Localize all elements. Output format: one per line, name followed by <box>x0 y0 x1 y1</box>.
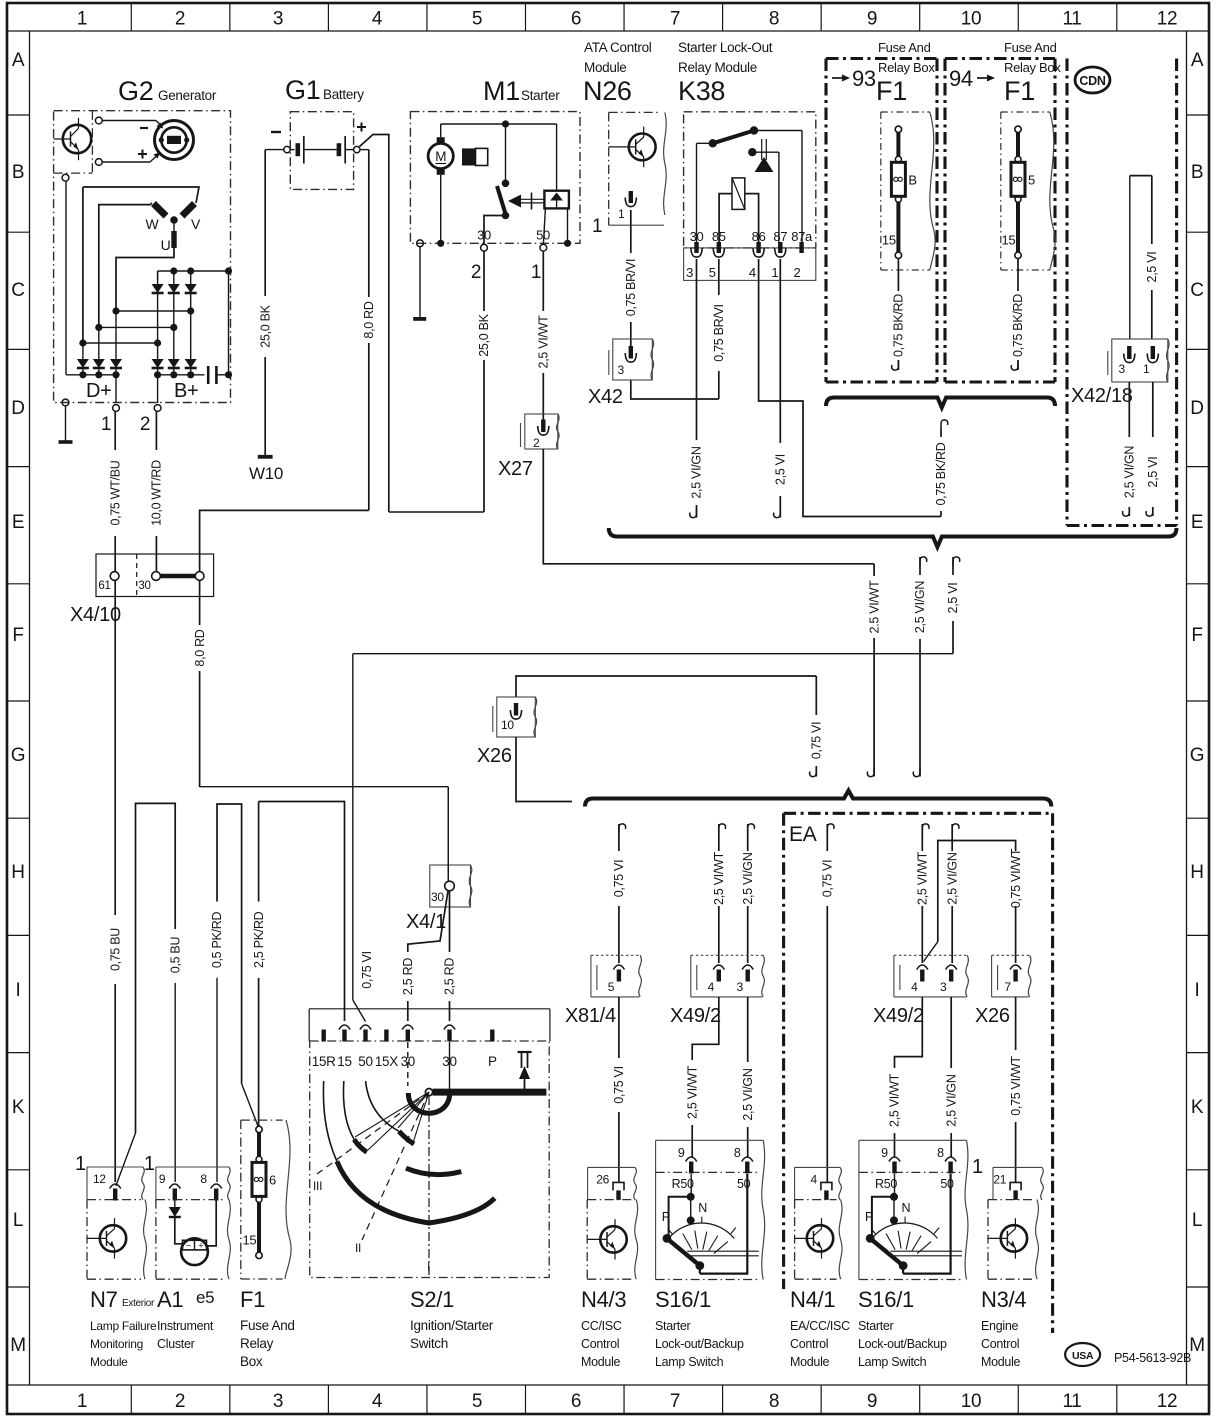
svg-text:A1: A1 <box>157 1287 183 1312</box>
svg-text:9: 9 <box>678 1146 685 1160</box>
svg-text:N: N <box>698 1201 707 1215</box>
svg-text:Ignition/Starter: Ignition/Starter <box>410 1318 494 1333</box>
svg-text:2,5 VI/WT: 2,5 VI/WT <box>888 1073 902 1127</box>
svg-text:30: 30 <box>690 229 704 244</box>
svg-text:Switch: Switch <box>410 1336 448 1351</box>
svg-text:G1: G1 <box>285 75 320 105</box>
svg-text:C: C <box>11 280 24 301</box>
svg-text:CC/ISC: CC/ISC <box>581 1319 622 1333</box>
svg-text:8: 8 <box>734 1146 741 1160</box>
svg-text:K38: K38 <box>678 76 725 106</box>
svg-text:−: − <box>186 1240 191 1250</box>
svg-text:2: 2 <box>175 1391 185 1412</box>
svg-text:Monitoring: Monitoring <box>90 1337 143 1351</box>
svg-text:0,75 BR/VI: 0,75 BR/VI <box>624 259 638 316</box>
svg-text:26: 26 <box>596 1172 609 1186</box>
svg-text:5: 5 <box>608 980 615 994</box>
svg-text:M1: M1 <box>483 76 520 106</box>
svg-text:K: K <box>12 1097 25 1118</box>
svg-text:E: E <box>1191 512 1203 533</box>
svg-text:P: P <box>865 1210 873 1224</box>
svg-text:15X: 15X <box>375 1054 398 1069</box>
svg-text:3: 3 <box>1119 362 1126 376</box>
svg-text:F: F <box>1191 625 1202 646</box>
svg-text:Exterior: Exterior <box>122 1298 155 1309</box>
svg-text:+: + <box>198 1240 203 1250</box>
svg-text:1: 1 <box>101 414 111 435</box>
svg-text:15: 15 <box>882 232 896 247</box>
svg-text:N26: N26 <box>583 76 632 106</box>
svg-text:1: 1 <box>144 1153 155 1175</box>
svg-text:10: 10 <box>501 718 514 732</box>
svg-text:A: A <box>1191 50 1204 71</box>
svg-text:0,75 BU: 0,75 BU <box>108 928 122 971</box>
svg-text:3: 3 <box>737 980 744 994</box>
svg-text:61: 61 <box>98 580 110 592</box>
svg-text:e5: e5 <box>196 1288 214 1307</box>
svg-text:F1: F1 <box>876 76 907 106</box>
svg-text:2,5 VI/GN: 2,5 VI/GN <box>741 1068 755 1120</box>
svg-text:1: 1 <box>972 1156 983 1178</box>
svg-text:Control: Control <box>790 1337 828 1351</box>
svg-text:A: A <box>12 50 25 71</box>
svg-text:W: W <box>146 216 160 232</box>
svg-text:N3/4: N3/4 <box>981 1287 1026 1312</box>
svg-text:2,5 VI/WT: 2,5 VI/WT <box>712 851 726 905</box>
svg-text:10: 10 <box>961 1391 982 1412</box>
svg-text:0,75 VI: 0,75 VI <box>810 722 824 760</box>
svg-text:Fuse And: Fuse And <box>240 1318 295 1333</box>
svg-text:5: 5 <box>472 1391 482 1412</box>
svg-text:6: 6 <box>571 9 581 30</box>
svg-text:0,5 PK/RD: 0,5 PK/RD <box>210 912 224 969</box>
svg-text:3: 3 <box>618 363 625 377</box>
svg-text:2,5 VI/GN: 2,5 VI/GN <box>913 581 927 633</box>
svg-text:I: I <box>16 980 21 1001</box>
svg-text:2.5 VI/WT: 2.5 VI/WT <box>867 580 881 634</box>
svg-text:Relay Box: Relay Box <box>878 60 935 75</box>
svg-text:0,75 VI: 0,75 VI <box>612 860 626 898</box>
svg-text:50: 50 <box>940 1177 954 1191</box>
svg-text:Generator: Generator <box>158 88 217 103</box>
svg-text:Module: Module <box>981 1355 1021 1369</box>
svg-text:Control: Control <box>981 1337 1019 1351</box>
svg-text:7: 7 <box>670 1391 680 1412</box>
svg-text:1: 1 <box>618 207 625 221</box>
svg-text:S16/1: S16/1 <box>858 1287 914 1312</box>
svg-text:S16/1: S16/1 <box>655 1287 711 1312</box>
svg-text:4: 4 <box>372 9 383 30</box>
svg-text:12: 12 <box>93 1172 106 1186</box>
svg-text:F1: F1 <box>240 1287 265 1312</box>
svg-text:Relay Box: Relay Box <box>1004 60 1061 75</box>
svg-text:4: 4 <box>749 265 756 280</box>
svg-text:2,5 VI/GN: 2,5 VI/GN <box>945 852 959 904</box>
svg-text:X42/18: X42/18 <box>1071 385 1133 407</box>
svg-text:4: 4 <box>708 980 715 994</box>
svg-text:25,0 BK: 25,0 BK <box>477 313 491 356</box>
svg-text:7: 7 <box>670 9 680 30</box>
svg-text:M: M <box>1189 1335 1205 1356</box>
svg-text:EA/CC/ISC: EA/CC/ISC <box>790 1319 850 1333</box>
svg-text:5: 5 <box>709 265 716 280</box>
svg-text:5: 5 <box>472 9 482 30</box>
svg-text:2: 2 <box>533 436 540 450</box>
svg-text:0,75 VI: 0,75 VI <box>821 860 835 898</box>
svg-text:9: 9 <box>867 9 877 30</box>
svg-text:8: 8 <box>937 1146 944 1160</box>
svg-text:0,75 BK/RD: 0,75 BK/RD <box>892 294 906 357</box>
svg-text:8,0 RD: 8,0 RD <box>193 629 207 666</box>
svg-text:3: 3 <box>686 265 693 280</box>
svg-text:EA: EA <box>789 823 817 846</box>
svg-text:H: H <box>1190 862 1203 883</box>
svg-text:12: 12 <box>1157 9 1178 30</box>
svg-text:2,5 VI: 2,5 VI <box>1146 457 1160 488</box>
svg-text:Module: Module <box>581 1355 621 1369</box>
svg-text:8: 8 <box>769 1391 779 1412</box>
svg-text:H: H <box>11 862 24 883</box>
svg-text:Starter: Starter <box>521 88 560 103</box>
svg-text:3: 3 <box>273 9 283 30</box>
svg-text:Fuse And: Fuse And <box>1004 40 1057 55</box>
svg-text:30: 30 <box>477 228 491 243</box>
svg-text:0,75 VI: 0,75 VI <box>360 951 374 989</box>
svg-text:Starter: Starter <box>858 1319 894 1333</box>
svg-text:6: 6 <box>269 1172 276 1187</box>
svg-text:8: 8 <box>769 9 779 30</box>
svg-text:D+: D+ <box>86 380 112 402</box>
svg-text:5: 5 <box>1028 172 1035 187</box>
svg-text:III: III <box>313 1179 322 1193</box>
svg-text:D: D <box>1190 398 1203 419</box>
svg-text:Relay: Relay <box>240 1336 274 1351</box>
svg-text:G2: G2 <box>118 76 153 106</box>
svg-text:N: N <box>902 1201 911 1215</box>
svg-text:X26: X26 <box>975 1005 1010 1027</box>
svg-text:E: E <box>12 512 24 533</box>
svg-text:1: 1 <box>77 1391 87 1412</box>
svg-text:94: 94 <box>949 66 973 91</box>
svg-text:CDN: CDN <box>1079 74 1105 88</box>
svg-text:Lamp Switch: Lamp Switch <box>858 1355 927 1369</box>
svg-text:2,5 VI/GN: 2,5 VI/GN <box>690 446 704 498</box>
svg-text:M: M <box>10 1335 26 1356</box>
svg-text:2: 2 <box>175 9 185 30</box>
svg-text:X4/1: X4/1 <box>406 911 446 933</box>
svg-text:Lock-out/Backup: Lock-out/Backup <box>858 1337 947 1351</box>
svg-text:G: G <box>11 745 25 766</box>
svg-text:I: I <box>427 1260 430 1274</box>
svg-text:15: 15 <box>243 1232 257 1247</box>
svg-text:1: 1 <box>771 265 778 280</box>
svg-text:2,5 VI/GN: 2,5 VI/GN <box>741 852 755 904</box>
svg-text:F1: F1 <box>1004 76 1035 106</box>
svg-text:K: K <box>1191 1097 1204 1118</box>
svg-text:Cluster: Cluster <box>157 1337 195 1351</box>
svg-text:F: F <box>12 625 23 646</box>
svg-text:B: B <box>12 162 24 183</box>
svg-text:Battery: Battery <box>323 87 364 102</box>
svg-text:4: 4 <box>811 1172 818 1186</box>
svg-text:Starter: Starter <box>655 1319 691 1333</box>
svg-text:4: 4 <box>911 980 918 994</box>
svg-text:86: 86 <box>752 229 766 244</box>
svg-text:2,5 VI: 2,5 VI <box>774 454 788 485</box>
svg-text:Starter Lock-Out: Starter Lock-Out <box>678 40 773 55</box>
svg-text:M: M <box>435 149 446 164</box>
svg-text:L: L <box>1192 1210 1202 1231</box>
svg-text:2,5 RD: 2,5 RD <box>401 958 415 995</box>
svg-text:8,0 RD: 8,0 RD <box>362 301 376 338</box>
svg-text:ATA Control: ATA Control <box>584 40 652 55</box>
svg-text:USA: USA <box>1072 1350 1094 1362</box>
svg-text:0,75 BK/RD: 0,75 BK/RD <box>934 442 948 505</box>
svg-text:Lamp Failure: Lamp Failure <box>90 1319 157 1333</box>
svg-text:X49/2: X49/2 <box>873 1005 924 1027</box>
svg-text:Relay Module: Relay Module <box>678 60 757 75</box>
svg-text:1: 1 <box>77 9 87 30</box>
svg-text:B: B <box>1191 162 1203 183</box>
svg-text:0,75 VI/WT: 0,75 VI/WT <box>1009 848 1023 908</box>
svg-text:Engine: Engine <box>981 1319 1018 1333</box>
svg-text:2,5 RD: 2,5 RD <box>443 958 457 995</box>
svg-text:50: 50 <box>737 1177 751 1191</box>
svg-text:D: D <box>11 398 24 419</box>
svg-text:9: 9 <box>867 1391 877 1412</box>
svg-text:Module: Module <box>90 1355 128 1369</box>
svg-text:50: 50 <box>358 1054 372 1069</box>
svg-text:30: 30 <box>138 580 150 592</box>
svg-text:3: 3 <box>940 980 947 994</box>
svg-text:W10: W10 <box>249 464 283 483</box>
svg-text:Fuse And: Fuse And <box>878 40 931 55</box>
svg-text:2: 2 <box>140 414 150 435</box>
svg-text:9: 9 <box>159 1172 166 1186</box>
svg-text:85: 85 <box>712 229 726 244</box>
svg-text:87a: 87a <box>791 229 813 244</box>
svg-text:Lock-out/Backup: Lock-out/Backup <box>655 1337 744 1351</box>
svg-text:Instrument: Instrument <box>157 1319 214 1333</box>
svg-text:Module: Module <box>790 1355 830 1369</box>
svg-text:2: 2 <box>471 262 481 283</box>
svg-text:X26: X26 <box>477 745 512 767</box>
svg-text:I: I <box>1195 980 1200 1001</box>
svg-text:30: 30 <box>431 890 444 904</box>
svg-text:Lamp Switch: Lamp Switch <box>655 1355 724 1369</box>
svg-text:2,5 VI/GN: 2,5 VI/GN <box>944 1074 958 1126</box>
svg-text:2,5 VI: 2,5 VI <box>1145 252 1159 283</box>
svg-text:X4/10: X4/10 <box>70 604 121 626</box>
svg-text:L: L <box>13 1210 23 1231</box>
svg-text:93: 93 <box>852 66 876 91</box>
svg-text:6: 6 <box>571 1391 581 1412</box>
svg-text:N7: N7 <box>90 1287 118 1312</box>
svg-text:7: 7 <box>1004 980 1011 994</box>
svg-text:10,0 WT/RD: 10,0 WT/RD <box>150 460 164 526</box>
svg-text:10: 10 <box>961 9 982 30</box>
svg-text:2,5 VI/WT: 2,5 VI/WT <box>685 1065 699 1119</box>
svg-text:X27: X27 <box>498 458 533 480</box>
svg-text:2,5 VI/GN: 2,5 VI/GN <box>1123 446 1137 498</box>
svg-text:P: P <box>662 1210 670 1224</box>
svg-text:25,0 BK: 25,0 BK <box>258 304 272 347</box>
svg-text:P54-5613-92B: P54-5613-92B <box>1114 1351 1191 1365</box>
svg-text:C: C <box>1190 280 1203 301</box>
svg-text:4: 4 <box>372 1391 383 1412</box>
svg-text:0,75 VI/WT: 0,75 VI/WT <box>1009 1056 1023 1116</box>
svg-text:N4/1: N4/1 <box>790 1287 835 1312</box>
svg-text:X42: X42 <box>588 386 623 408</box>
svg-text:12: 12 <box>1157 1391 1178 1412</box>
svg-text:S2/1: S2/1 <box>410 1287 454 1312</box>
svg-text:2: 2 <box>794 265 801 280</box>
svg-text:2,5 VI/WT: 2,5 VI/WT <box>916 851 930 905</box>
svg-text:B+: B+ <box>174 380 198 402</box>
svg-text:1: 1 <box>1143 362 1150 376</box>
svg-text:G: G <box>1190 745 1204 766</box>
svg-text:1: 1 <box>531 262 541 283</box>
svg-text:11: 11 <box>1062 1391 1081 1412</box>
svg-text:Module: Module <box>584 60 626 75</box>
svg-text:P: P <box>488 1054 497 1069</box>
svg-text:11: 11 <box>1062 9 1081 30</box>
svg-text:N4/3: N4/3 <box>581 1287 626 1312</box>
svg-text:Control: Control <box>581 1337 619 1351</box>
svg-text:0,75 BR/VI: 0,75 BR/VI <box>712 304 726 361</box>
svg-text:9: 9 <box>881 1146 888 1160</box>
svg-text:U: U <box>161 237 171 253</box>
svg-text:X81/4: X81/4 <box>565 1005 616 1027</box>
svg-text:2,5 VI/WT: 2,5 VI/WT <box>537 315 551 369</box>
svg-text:II: II <box>355 1241 361 1255</box>
svg-text:B: B <box>908 172 916 187</box>
svg-text:V: V <box>191 216 201 232</box>
svg-text:Box: Box <box>240 1354 263 1369</box>
svg-text:0,5 BU: 0,5 BU <box>168 937 182 974</box>
svg-text:1: 1 <box>75 1153 86 1175</box>
svg-text:15: 15 <box>1002 232 1016 247</box>
svg-text:1: 1 <box>592 216 602 237</box>
svg-text:15: 15 <box>337 1054 351 1069</box>
svg-text:0,75 BK/RD: 0,75 BK/RD <box>1011 294 1025 357</box>
svg-text:0,75 VI: 0,75 VI <box>612 1066 626 1104</box>
svg-text:0,75 WT/BU: 0,75 WT/BU <box>108 460 122 525</box>
svg-text:87: 87 <box>773 229 787 244</box>
svg-text:8: 8 <box>200 1172 207 1186</box>
svg-text:2,5 PK/RD: 2,5 PK/RD <box>252 911 266 968</box>
svg-text:X49/2: X49/2 <box>670 1005 721 1027</box>
svg-text:15R: 15R <box>312 1054 336 1069</box>
svg-text:2,5 VI: 2,5 VI <box>946 583 960 614</box>
svg-text:50: 50 <box>536 228 550 243</box>
svg-text:3: 3 <box>273 1391 283 1412</box>
svg-text:21: 21 <box>993 1172 1006 1186</box>
